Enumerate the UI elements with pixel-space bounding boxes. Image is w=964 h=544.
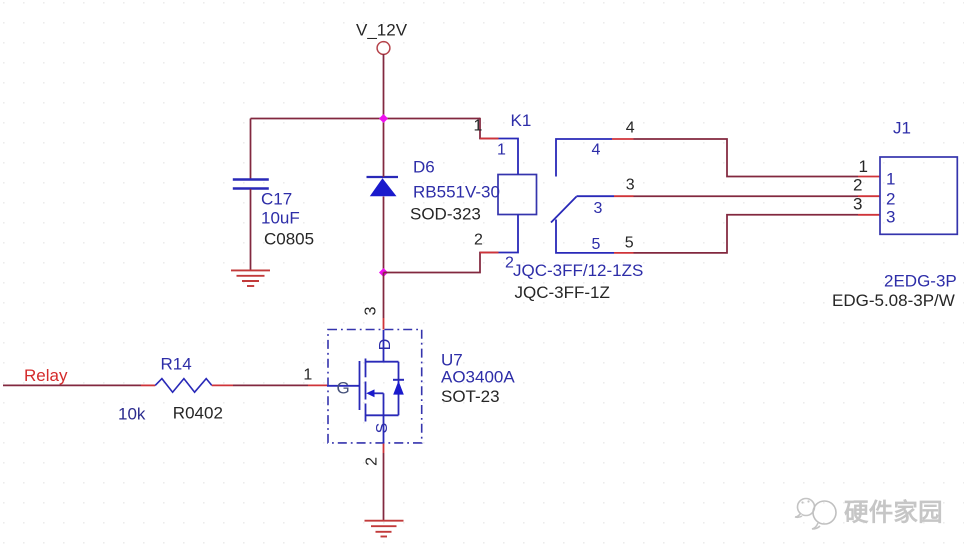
svg-text:2: 2 xyxy=(853,175,862,194)
svg-text:AO3400A: AO3400A xyxy=(441,368,515,387)
wire K1 pin 5 to J1 pin 3 xyxy=(614,215,880,253)
svg-text:SOD-323: SOD-323 xyxy=(410,204,481,223)
svg-text:U7: U7 xyxy=(441,350,463,369)
svg-text:K1: K1 xyxy=(511,111,532,130)
wire V_12V vertical xyxy=(383,54,385,119)
svg-text:1: 1 xyxy=(303,366,312,383)
wire C17 to ground xyxy=(250,189,252,270)
svg-text:1: 1 xyxy=(474,118,483,135)
wire R14 to U7 gate xyxy=(212,384,327,386)
resistor R14 xyxy=(155,379,212,393)
svg-text:4: 4 xyxy=(592,142,601,159)
junction V12 node xyxy=(379,114,388,123)
svg-text:硬件家园: 硬件家园 xyxy=(844,498,943,527)
svg-text:J1: J1 xyxy=(893,118,911,137)
relay K1 contact pin 4 xyxy=(556,139,612,177)
svg-text:3: 3 xyxy=(886,207,895,226)
svg-text:C0805: C0805 xyxy=(264,229,314,248)
wire U7 source to ground xyxy=(383,444,385,521)
junction drain node xyxy=(379,268,388,277)
svg-text:RB551V-30: RB551V-30 xyxy=(413,182,500,201)
wire Relay to R14 xyxy=(3,384,155,386)
wire drain node to K1 pin 2 xyxy=(384,253,499,273)
relay K1 armature xyxy=(551,197,577,223)
svg-text:JQC-3FF-1Z: JQC-3FF-1Z xyxy=(515,283,610,302)
transistor U7 MOSFET symbol xyxy=(327,330,404,444)
transistor U7 dashed outline xyxy=(328,330,422,443)
svg-text:3: 3 xyxy=(853,194,862,213)
svg-text:2: 2 xyxy=(886,189,895,208)
svg-text:2EDG-3P: 2EDG-3P xyxy=(884,272,957,291)
svg-text:SOT-23: SOT-23 xyxy=(441,387,500,406)
svg-text:D: D xyxy=(377,339,394,351)
wire to K1 pin 1 xyxy=(480,118,499,139)
svg-text:10uF: 10uF xyxy=(261,208,300,227)
svg-text:3: 3 xyxy=(363,306,380,315)
wire V12 to D6 cathode xyxy=(383,119,385,178)
svg-text:G: G xyxy=(337,378,350,397)
svg-text:2: 2 xyxy=(364,457,381,466)
svg-text:2: 2 xyxy=(474,232,483,249)
relay K1 coil xyxy=(498,139,537,253)
connector J1 xyxy=(880,157,957,234)
svg-text:V_12V: V_12V xyxy=(356,21,408,40)
svg-text:10k: 10k xyxy=(118,405,146,424)
svg-text:R0402: R0402 xyxy=(173,404,223,423)
svg-text:1: 1 xyxy=(497,141,506,158)
wire junction to U7 drain xyxy=(383,273,385,330)
power port V_12V xyxy=(356,21,408,55)
watermark logo xyxy=(795,499,836,530)
relay K1 contact pin 3 xyxy=(577,195,615,197)
svg-text:D6: D6 xyxy=(413,157,435,176)
svg-text:JQC-3FF/12-1ZS: JQC-3FF/12-1ZS xyxy=(513,261,643,280)
svg-text:3: 3 xyxy=(626,176,635,193)
svg-text:S: S xyxy=(374,423,391,434)
svg-text:4: 4 xyxy=(626,119,635,136)
ground C17 xyxy=(231,270,270,286)
svg-text:1: 1 xyxy=(859,157,868,176)
wire K1 pin 3 to J1 pin 2 xyxy=(614,195,880,197)
ground U7 source xyxy=(365,521,404,537)
wire C17 top xyxy=(250,119,252,180)
svg-text:5: 5 xyxy=(625,235,634,252)
wire V_12V horizontal xyxy=(251,118,481,120)
svg-text:Relay: Relay xyxy=(24,366,68,385)
svg-text:C17: C17 xyxy=(261,189,292,208)
svg-text:EDG-5.08-3P/W: EDG-5.08-3P/W xyxy=(832,291,955,310)
wire K1 pin 4 to J1 pin 1 xyxy=(612,139,880,177)
relay K1 contact pin 5 xyxy=(556,220,614,253)
svg-text:5: 5 xyxy=(592,236,601,253)
capacitor C17 xyxy=(233,180,269,189)
svg-text:R14: R14 xyxy=(161,355,192,374)
svg-text:3: 3 xyxy=(594,200,603,217)
wire D6 anode to drain node xyxy=(383,197,385,273)
diode D6 xyxy=(367,177,399,196)
svg-text:1: 1 xyxy=(886,169,895,188)
